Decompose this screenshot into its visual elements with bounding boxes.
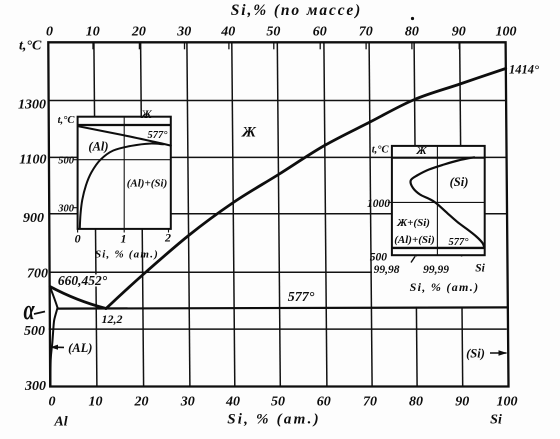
- svg-text:Si, % (ат.): Si, % (ат.): [95, 249, 159, 261]
- svg-text:90: 90: [455, 395, 469, 410]
- svg-text:577°: 577°: [449, 237, 470, 248]
- svg-text:300: 300: [57, 204, 75, 215]
- svg-text:2: 2: [164, 231, 171, 245]
- svg-text:50: 50: [271, 395, 285, 410]
- svg-text:10: 10: [89, 395, 103, 410]
- svg-text:(Si): (Si): [466, 347, 485, 361]
- svg-text:20: 20: [131, 25, 146, 40]
- svg-text:500: 500: [58, 156, 75, 167]
- svg-text:1: 1: [121, 232, 127, 246]
- svg-text:12,2: 12,2: [102, 312, 123, 326]
- svg-text:1300: 1300: [18, 98, 46, 113]
- svg-text:0: 0: [46, 25, 53, 40]
- svg-text:10: 10: [86, 25, 100, 40]
- svg-text:900: 900: [23, 211, 44, 226]
- svg-text:Si: Si: [475, 263, 485, 275]
- svg-text:Si: Si: [490, 413, 502, 428]
- svg-text:500: 500: [370, 252, 388, 264]
- svg-text:20: 20: [134, 395, 149, 410]
- svg-text:1414°: 1414°: [509, 63, 539, 77]
- svg-text:300: 300: [24, 379, 46, 394]
- svg-text:60: 60: [313, 25, 327, 40]
- svg-text:Si, % (ат.): Si, % (ат.): [410, 280, 480, 294]
- svg-text:577°: 577°: [148, 130, 169, 141]
- svg-text:60: 60: [317, 395, 331, 410]
- svg-text:90: 90: [452, 25, 466, 40]
- svg-text:Ж: Ж: [140, 109, 152, 121]
- svg-text:(Al)+(Si): (Al)+(Si): [127, 178, 168, 190]
- svg-text:t,°C: t,°C: [58, 115, 76, 126]
- svg-text:t,°C: t,°C: [372, 145, 390, 156]
- svg-text:(Al)+(Si): (Al)+(Si): [394, 234, 435, 246]
- svg-text:Ж+(Si): Ж+(Si): [396, 217, 430, 229]
- svg-text:1100: 1100: [19, 153, 46, 168]
- svg-text:α: α: [23, 295, 34, 326]
- svg-text:30: 30: [180, 395, 195, 410]
- svg-text:0: 0: [75, 232, 81, 246]
- svg-text:70: 70: [363, 395, 377, 410]
- svg-text:Ж: Ж: [415, 145, 427, 157]
- svg-text:80: 80: [409, 395, 423, 410]
- svg-text:577°: 577°: [288, 290, 315, 305]
- svg-text:50: 50: [266, 25, 280, 40]
- svg-text:1000: 1000: [367, 198, 390, 210]
- svg-text:30: 30: [176, 25, 191, 40]
- svg-text:Si,% (по массе): Si,% (по массе): [231, 2, 362, 19]
- svg-text:80: 80: [405, 25, 419, 40]
- svg-text:660,452°: 660,452°: [58, 273, 108, 288]
- svg-text:t,°C: t,°C: [19, 39, 42, 54]
- svg-text:(AL): (AL): [68, 341, 92, 355]
- svg-text:70: 70: [359, 25, 373, 40]
- svg-text:(Si): (Si): [450, 175, 469, 189]
- svg-text:700: 700: [27, 267, 48, 282]
- svg-text:Ж: Ж: [241, 125, 257, 141]
- svg-text:(Al): (Al): [88, 140, 108, 154]
- svg-text:Al: Al: [53, 415, 67, 430]
- svg-text:100: 100: [497, 395, 518, 410]
- svg-text:40: 40: [220, 25, 235, 40]
- svg-text:100: 100: [496, 25, 517, 40]
- svg-text:99,98: 99,98: [374, 264, 400, 276]
- svg-text:500: 500: [24, 324, 45, 339]
- svg-text:0: 0: [49, 395, 56, 410]
- svg-text:40: 40: [225, 395, 240, 410]
- svg-text:Si, % (ат.): Si, % (ат.): [227, 412, 321, 428]
- svg-text:99,99: 99,99: [423, 264, 449, 276]
